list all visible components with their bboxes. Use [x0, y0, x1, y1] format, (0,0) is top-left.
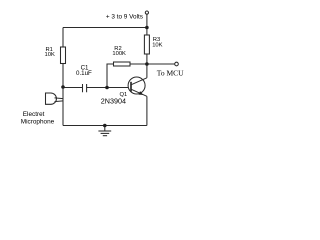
svg-text:2N3904: 2N3904 [101, 97, 126, 106]
svg-text:0.1uF: 0.1uF [76, 70, 92, 77]
svg-text:Microphone: Microphone [21, 119, 55, 126]
svg-text:+ 3 to 9 Volts: + 3 to 9 Volts [106, 13, 143, 20]
svg-text:Electret: Electret [23, 111, 45, 118]
svg-text:10K: 10K [45, 52, 55, 58]
svg-text:10K: 10K [152, 42, 162, 48]
svg-text:100K: 100K [112, 51, 126, 57]
svg-text:To MCU: To MCU [157, 68, 184, 77]
